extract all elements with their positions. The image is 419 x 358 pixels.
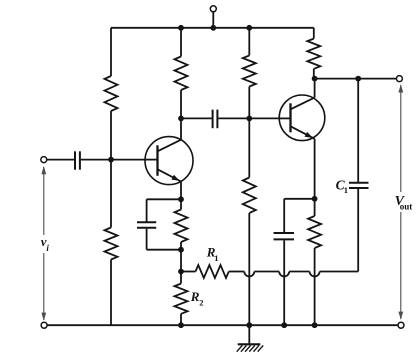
wire input to coupling cap [47,159,74,161]
wire Q2 emitter cap upper lead [283,199,285,232]
capacitor interstage coupling [213,110,218,129]
wire R2 lower lead [180,314,182,325]
input terminal [41,157,47,163]
wire emitter resistor lower lead [180,242,182,250]
wire vout dimension line upper [400,85,402,192]
node emitter cap ground junction [281,322,287,328]
wire emitter resistor upper lead [180,199,182,209]
wire Q2 emitter resistor upper lead [314,199,316,216]
node ground rail center junction [246,322,252,328]
wire R1 line to C1 branch [320,271,359,273]
wire left chain lower lead [110,260,112,326]
node Q2 collector junction [312,76,318,82]
power supply terminal [210,6,216,28]
ground [237,344,264,351]
label R1 [206,245,219,263]
wire chain3 between [248,87,250,119]
label Vout [395,194,413,212]
label C1 [336,177,348,195]
wire ground stub [248,325,250,344]
wire Q2 emitter resistor lower lead [314,248,316,325]
resistor Q2 emitter [308,216,321,248]
wire vi dimension line upper [43,167,45,235]
node top rail supply junction [210,25,216,31]
node input/base junction [108,157,114,163]
node top rail left junction [178,25,184,31]
node Q2 emitter junction [312,196,318,202]
resistor Q2 bias upper [243,56,256,87]
capacitor C1 [349,183,369,188]
svg-text:out: out [400,202,413,212]
wire crossover dip at emitter resistor branch [310,272,320,277]
transistor Q1 [145,137,193,185]
node emitter resistor ground junction [312,322,318,328]
wire chain2 lower lead [180,90,182,118]
wire chain3 to ground rail [248,213,250,325]
wire interstage cap to Q2 bias node [218,117,249,119]
resistor R1 [196,265,229,278]
wire vout arrow up [398,84,403,92]
ground terminal bottom left [41,322,47,328]
node Q2 base bias junction [246,116,252,122]
wire top supply rail [111,27,314,29]
wire Q1 emitter [180,182,182,200]
svg-text:R: R [190,289,200,304]
wire Q2 emitter [314,139,316,199]
wire bottom ground rail [47,324,399,326]
wire Q1 collector to interstage cap [181,117,212,119]
wire Q2 collector to output [315,78,397,80]
wire collector load upper lead [313,28,315,39]
wire collector load lower lead [313,69,315,79]
resistor Q1 collector load [175,57,188,91]
node R2 bottom junction [178,322,184,328]
wire bias node to Q2 base [249,117,279,119]
wire R2 upper lead [180,272,182,284]
wire between dips 1-2 [254,271,279,273]
capacitor Q2 emitter bypass [274,233,295,239]
wire emitter RC top link [147,198,181,200]
resistor left bias upper [105,76,118,111]
svg-text:i: i [46,243,49,253]
wire vi dimension line lower [43,253,45,320]
label vi [41,235,50,253]
wire bias node to Q1 base [111,159,145,161]
output terminal bottom right [398,322,404,328]
node top rail right junction [246,25,252,31]
node C1 top junction [355,76,361,82]
wire C1 upper lead [357,79,359,182]
resistor Q2 collector load [307,39,320,69]
resistor left bias lower [105,228,118,260]
capacitor input coupling [75,151,80,169]
wire coupling cap to bias node [81,159,111,161]
wire chain2 upper lead [180,28,182,57]
wire Q2 emitter RC top link [284,198,314,200]
svg-text:1: 1 [344,185,348,195]
resistor R2 [175,284,188,314]
wire emitter node to feedback node [180,250,182,272]
wire crossover dip at emitter cap branch [279,272,289,277]
wire crossover dip at chain3 [244,272,254,277]
wire vout arrow down [398,312,403,320]
svg-text:1: 1 [214,253,218,263]
wire left chain upper lead [110,28,112,76]
node Q1 collector junction [178,116,184,122]
wire vout dimension line lower [400,212,402,319]
capacitor Q1 emitter bypass [137,222,156,227]
wire chain3 to lower resistor [248,118,250,177]
wire chain3 upper lead [248,28,250,56]
resistor Q2 bias lower [243,178,256,214]
wire bypass cap lower lead [146,229,148,250]
wire R1 to first dip [229,271,245,273]
label R2 [190,289,204,308]
wire emitter RC bottom link [147,249,181,251]
wire C1 lower lead [357,189,359,272]
wire vi arrow up [41,166,46,174]
node Q1 emitter junction [178,196,184,202]
node emitter RC bottom junction [178,247,184,253]
wire bypass cap upper lead [146,199,148,221]
wire R1 left lead [181,271,196,273]
wire Q2 collector [314,79,316,98]
svg-text:2: 2 [199,298,203,308]
wire between dips 2-3 [289,271,309,273]
resistor Q1 emitter [175,210,188,243]
output terminal top [396,76,402,82]
wire left chain middle [110,111,112,228]
node feedback junction [178,269,184,275]
wire vi arrow down [41,313,46,321]
transistor Q2 [279,95,325,141]
wire Q1 collector [180,118,182,139]
wire Q2 emitter cap lower lead [283,240,285,325]
